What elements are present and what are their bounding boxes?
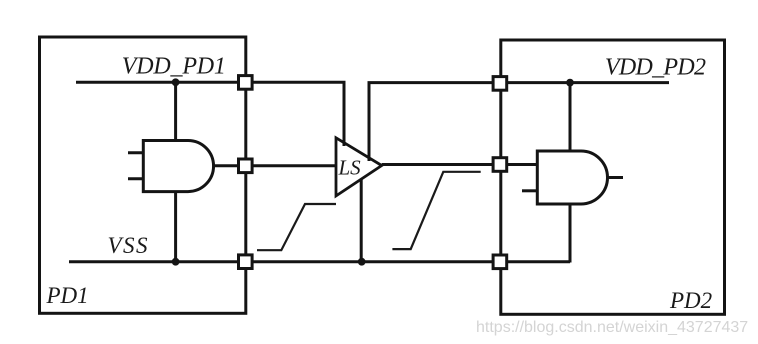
wire AND2 ground connection <box>569 203 572 263</box>
wire AND1 output to LS input <box>213 164 337 167</box>
PD2 power domain box <box>501 40 725 314</box>
wire LS output to AND2 input <box>382 163 538 166</box>
port square PD2 signal <box>493 158 507 172</box>
junction dot VDD_PD2 / AND2 supply <box>566 79 574 87</box>
svg-text:LS: LS <box>338 156 362 180</box>
junction dot VDD_PD1 / AND1 supply <box>172 78 180 86</box>
wire AND1 supply tap from VDD_PD1 <box>174 82 177 141</box>
svg-text:VDD_PD1: VDD_PD1 <box>122 54 226 80</box>
port square PD1 signal <box>239 159 253 173</box>
svg-text:PD2: PD2 <box>669 288 712 313</box>
port square PD1 VSS <box>239 255 253 269</box>
waveform ramp symbol right <box>392 172 480 249</box>
PD1 power domain box <box>40 37 246 313</box>
wire VDD_PD2 rail with drop to level shifter <box>369 83 669 161</box>
waveform ramp symbol left <box>257 204 336 250</box>
AND gate U2 second input stub <box>522 189 537 192</box>
wire LS ground connection <box>360 179 363 262</box>
level shifter LS triangle <box>336 138 382 196</box>
wire AND1 ground connection <box>174 191 177 262</box>
svg-text:VSS: VSS <box>108 233 150 258</box>
AND gate U1 input stubs <box>128 153 143 179</box>
junction dot VSS / AND1 ground <box>172 258 180 266</box>
AND gate U1 <box>143 141 213 192</box>
wire VSS rail <box>69 260 570 263</box>
svg-text:https://blog.csdn.net/weixin_4: https://blog.csdn.net/weixin_43727437 <box>476 319 748 336</box>
AND gate U2 <box>537 151 607 204</box>
port square PD1 VDD <box>239 76 253 90</box>
junction dot VSS / LS ground <box>358 258 366 266</box>
wire AND2 supply tap from VDD_PD2 <box>569 83 572 152</box>
svg-text:VDD_PD2: VDD_PD2 <box>605 55 706 81</box>
svg-text:PD1: PD1 <box>46 283 89 308</box>
port square PD2 VDD <box>493 77 507 91</box>
AND gate U2 output stub <box>608 176 624 179</box>
port square PD2 VSS <box>493 255 507 269</box>
wire VDD_PD1 rail with drop to level shifter <box>76 82 344 146</box>
